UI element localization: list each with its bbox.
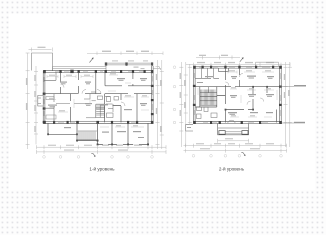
terrace dimension line (29, 48, 53, 52)
extension wall posts (47, 133, 149, 145)
corridor wall left plan (56, 103, 90, 105)
svg-text:2-й уровень: 2-й уровень (219, 165, 245, 171)
left wall mullions right plan (193, 73, 195, 115)
porch bottom-left right plan (186, 124, 194, 131)
interior vertical walls upper (61, 72, 133, 94)
bottom dimension numbers right plan (196, 138, 274, 149)
top dimension numbers (102, 51, 149, 52)
main exterior top wall right plan double line (193, 66, 281, 68)
white drawing sheet (9, 14, 315, 191)
right vertical dimension lines right plan (284, 62, 292, 147)
top dimension line upper (196, 55, 240, 59)
top dimension line main (186, 63, 290, 67)
bottom dimension line 2 (37, 150, 167, 154)
stair treads hatch vertical (201, 90, 215, 105)
interior dim number smudges right plan (229, 70, 271, 116)
terrace dimension label (38, 47, 46, 48)
interior mid horizontal wall (44, 93, 152, 95)
bay porch protrusion bottom (218, 124, 249, 135)
axis bubbles left side right plan (173, 66, 176, 124)
left wall pilasters right plan (193, 85, 196, 106)
room label smudges left plan (48, 78, 147, 138)
staircase treads hatch (78, 131, 97, 140)
left wall pilasters (43, 93, 46, 124)
porch column left (219, 131, 225, 135)
top wall pilasters right plan (193, 66, 282, 69)
left wall window mullions (43, 77, 45, 116)
kitchen counter marks (46, 97, 56, 120)
corridor partition segments left plan (84, 92, 113, 118)
internal stair treads left plan (96, 104, 104, 117)
wall arc bump (228, 120, 235, 123)
axis bubbles bottom right plan (192, 155, 282, 158)
bottom dimension line 1 (37, 145, 167, 149)
top wall mullions right plan (199, 66, 270, 68)
axis arrow mark bottom (91, 153, 95, 156)
level mark label right side upper (282, 85, 294, 87)
bottom wall right plan double line (193, 122, 281, 124)
left exterior wall double line (43, 71, 45, 123)
right wall pilasters right plan (279, 86, 282, 107)
top wall recess step (219, 68, 229, 71)
interior walls right plan (217, 68, 281, 123)
raised block corner posts (105, 62, 153, 65)
bay dimension line right plan (218, 139, 249, 143)
lower rooms window gaps (103, 143, 139, 145)
interior horizontal wall right upper (105, 85, 152, 87)
interior dimension marks left plan (47, 75, 149, 127)
bottom wall mullions right plan (203, 122, 268, 124)
north arrow right plan (240, 57, 244, 62)
top wall window mullions (55, 71, 145, 73)
door arcs (61, 84, 126, 106)
top dimension numbers (197, 55, 274, 64)
axis bubbles bottom (43, 156, 154, 159)
right dimension numbers right plan (284, 74, 290, 98)
porch column right (242, 131, 248, 135)
window label smudges under raised block (112, 60, 148, 69)
raised block top right part (106, 63, 152, 71)
level mark label right side lower (282, 122, 294, 124)
room label smudges right plan (197, 76, 274, 115)
main exterior top wall double line (43, 71, 152, 73)
axis arrow mark bottom right plan (241, 153, 245, 156)
interior wall posts right plan (225, 86, 268, 111)
top wall pilasters (43, 70, 153, 74)
closet partitions top-left right plan (196, 68, 220, 78)
north arrow (90, 57, 94, 62)
right exterior wall right plan double line (280, 66, 282, 123)
closet wall upper-left (44, 72, 56, 122)
terrace outline top-left (32, 53, 53, 71)
interior dimension marks right plan (198, 71, 277, 118)
roof overhang line above top wall left part (53, 66, 107, 70)
left exterior wall right plan double line (193, 66, 195, 123)
interior vertical walls lower (71, 94, 138, 123)
elevation bracket top-right (153, 67, 160, 70)
left dimension numbers right plan (180, 73, 186, 116)
bottom wall of main block double line (43, 122, 152, 124)
bottom wall pilasters right plan (193, 121, 282, 124)
left vertical dimension line outer (26, 53, 30, 149)
svg-text:1-й уровень: 1-й уровень (89, 165, 115, 171)
internal staircase left plan (96, 104, 105, 117)
left dimension numbers (26, 75, 36, 132)
top dimension line right part (87, 52, 163, 56)
bottom wall pilasters (43, 121, 153, 124)
right wall mullions right plan (279, 73, 281, 116)
porch step lines (225, 132, 242, 134)
balcony edge above wall (256, 62, 279, 66)
right wall pilasters (151, 85, 154, 115)
lower extension left stub (48, 123, 77, 134)
bathroom fixtures cluster (98, 96, 119, 118)
left vertical dimension line inner (34, 66, 38, 144)
bottom dimension numbers (48, 145, 142, 151)
right exterior wall double line (152, 66, 154, 123)
interior dim number smudges left plan (49, 73, 147, 126)
right dimension numbers (156, 74, 162, 132)
stair mid rail (200, 101, 217, 105)
staircase block lower (77, 123, 98, 141)
right wall window mullions (151, 76, 153, 110)
stair upper flight rail (200, 87, 217, 93)
bottom wall window mullions (58, 121, 136, 123)
bottom dimension line 3 right plan (184, 149, 287, 153)
stairwell walls (196, 87, 226, 107)
door arcs right plan (225, 74, 263, 105)
left porch protrusion (38, 96, 44, 107)
lower extension right rooms (98, 123, 149, 144)
bathroom fixtures right plan (197, 107, 218, 119)
right vertical dimension lines (156, 60, 164, 149)
bottom dimension line 2 right plan (184, 144, 287, 148)
left vertical dimension lines right plan (179, 62, 192, 147)
